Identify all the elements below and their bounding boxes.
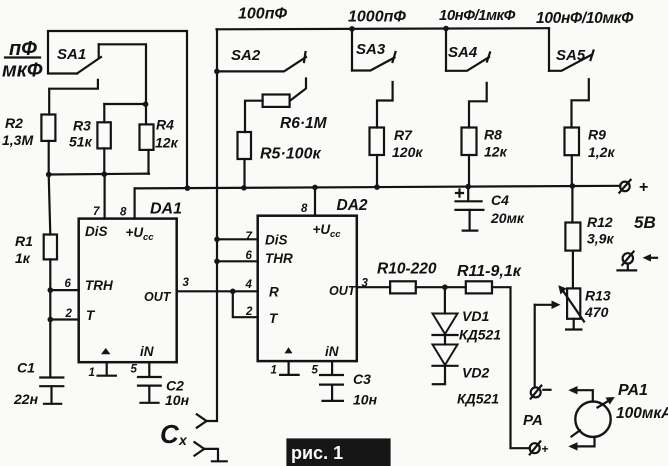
svg-text:R: R: [269, 285, 279, 300]
svg-text:R10-220: R10-220: [377, 261, 437, 278]
svg-text:12к: 12к: [155, 135, 179, 151]
svg-text:5: 5: [312, 365, 319, 377]
svg-text:1: 1: [271, 365, 277, 377]
svg-text:R5·100к: R5·100к: [260, 146, 321, 163]
svg-text:4: 4: [245, 279, 253, 291]
svg-text:R8: R8: [484, 127, 502, 143]
svg-text:R12: R12: [587, 214, 613, 230]
svg-text:TRH: TRH: [85, 278, 113, 293]
svg-text:+: +: [542, 442, 549, 456]
svg-text:10н: 10н: [353, 392, 378, 408]
svg-text:22н: 22н: [13, 391, 39, 407]
svg-text:мкФ: мкФ: [2, 60, 43, 82]
svg-text:5: 5: [131, 364, 138, 376]
svg-text:THR: THR: [265, 251, 293, 266]
svg-text:+U: +U: [126, 225, 145, 240]
svg-text:51к: 51к: [69, 134, 93, 150]
svg-text:3: 3: [183, 277, 190, 289]
svg-text:iN: iN: [325, 344, 339, 359]
svg-text:DiS: DiS: [85, 224, 108, 239]
svg-text:8: 8: [120, 207, 127, 219]
svg-text:8: 8: [301, 203, 308, 215]
svg-text:R13: R13: [585, 288, 611, 304]
svg-text:x: x: [178, 432, 188, 448]
svg-text:+: +: [639, 179, 648, 196]
svg-text:R2: R2: [5, 115, 23, 131]
svg-text:120к: 120к: [392, 144, 423, 160]
svg-text:470: 470: [584, 304, 609, 320]
svg-text:1000пФ: 1000пФ: [348, 9, 406, 26]
svg-text:R1: R1: [15, 233, 33, 249]
svg-text:cc: cc: [143, 232, 154, 243]
svg-text:7: 7: [93, 206, 100, 218]
svg-text:1,2к: 1,2к: [588, 144, 615, 160]
svg-text:SA3: SA3: [356, 41, 386, 58]
svg-text:6: 6: [65, 278, 72, 290]
svg-text:2: 2: [245, 306, 253, 318]
svg-text:3,9к: 3,9к: [587, 231, 614, 247]
svg-text:1,3М: 1,3М: [2, 132, 33, 148]
svg-text:100нФ/10мкФ: 100нФ/10мкФ: [536, 10, 634, 27]
svg-text:7: 7: [246, 231, 253, 243]
svg-text:OUT: OUT: [329, 284, 357, 298]
svg-text:R9: R9: [588, 127, 606, 143]
svg-text:iN: iN: [140, 344, 154, 359]
svg-text:1: 1: [89, 367, 95, 379]
svg-text:VD1: VD1: [462, 308, 489, 324]
svg-text:C1: C1: [17, 360, 35, 376]
svg-text:DA2: DA2: [337, 197, 368, 214]
svg-text:DiS: DiS: [265, 233, 288, 248]
svg-text:cc: cc: [330, 229, 341, 240]
svg-text:2: 2: [65, 308, 73, 320]
svg-text:C3: C3: [353, 371, 371, 387]
svg-text:OUT: OUT: [144, 290, 172, 304]
svg-text:C4: C4: [491, 192, 509, 208]
svg-text:КД521: КД521: [459, 327, 501, 343]
svg-text:C: C: [160, 419, 180, 449]
svg-text:+U: +U: [313, 222, 332, 237]
svg-text:5В: 5В: [634, 213, 656, 232]
svg-text:рис. 1: рис. 1: [291, 443, 343, 463]
svg-text:R7: R7: [394, 127, 413, 143]
svg-text:PA1: PA1: [618, 382, 648, 399]
svg-text:SA2: SA2: [231, 47, 261, 64]
svg-text:100мкА: 100мкА: [616, 405, 668, 422]
svg-text:R6·1М: R6·1М: [280, 115, 328, 132]
svg-text:1к: 1к: [15, 250, 31, 266]
svg-text:SA1: SA1: [57, 46, 86, 63]
svg-text:SA5: SA5: [556, 47, 586, 64]
svg-text:10нФ/1мкФ: 10нФ/1мкФ: [439, 7, 516, 24]
svg-text:6: 6: [246, 250, 253, 262]
svg-text:РА: РА: [523, 412, 543, 429]
svg-text:10н: 10н: [165, 392, 190, 408]
svg-text:100пФ: 100пФ: [238, 6, 287, 23]
svg-text:20мк: 20мк: [490, 210, 525, 226]
svg-text:R11-9,1к: R11-9,1к: [457, 263, 522, 280]
svg-text:SA4: SA4: [448, 44, 478, 61]
svg-text:DA1: DA1: [150, 201, 182, 218]
svg-text:12к: 12к: [484, 144, 508, 160]
svg-text:3: 3: [362, 278, 369, 290]
svg-text:VD2: VD2: [462, 365, 489, 381]
svg-text:КД521: КД521: [457, 391, 499, 407]
svg-text:R4: R4: [156, 117, 174, 133]
svg-text:R3: R3: [73, 118, 91, 134]
